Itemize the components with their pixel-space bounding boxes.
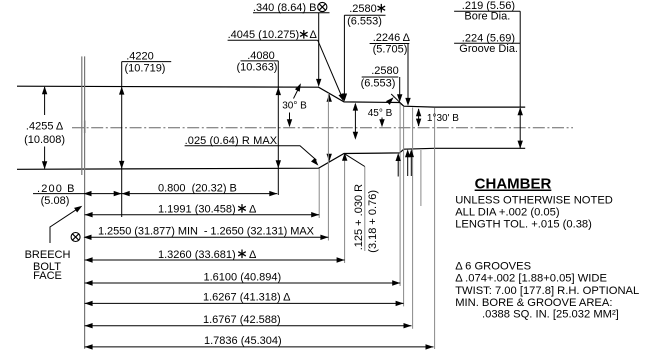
svg-text:(10.363): (10.363) (237, 62, 278, 74)
svg-text:(6.553): (6.553) (361, 78, 396, 90)
svg-text:TWIST: 7.00 [177.8] R.H. OPTIO: TWIST: 7.00 [177.8] R.H. OPTIONAL (455, 285, 639, 297)
dim .340 B label with circle-cross (253, 2, 330, 87)
svg-text:.0388 SQ. IN. [25.032 MM²]: .0388 SQ. IN. [25.032 MM²] (482, 309, 619, 321)
svg-text:30° B: 30° B (282, 100, 307, 111)
row3 dim 1.2550 min max with circle-cross (71, 226, 328, 242)
row1 dim .200 B and 0.800 B (33, 183, 277, 207)
shoulder datum arrow up (327, 94, 332, 102)
extension line shoulder start to row2 (318, 169, 320, 219)
svg-text:Δ: Δ (310, 29, 318, 41)
svg-text:UNLESS OTHERWISE NOTED: UNLESS OTHERWISE NOTED (455, 195, 613, 207)
svg-text:Δ: Δ (249, 249, 257, 261)
dim .4220 vertical line with label (119, 62, 171, 217)
dim .2580 second label (361, 65, 403, 102)
svg-text:1.6767 (42.588): 1.6767 (42.588) (203, 314, 281, 326)
svg-text:.2580: .2580 (349, 3, 377, 15)
45 degree chamfer leader arrow (386, 94, 404, 106)
row8 dim 1.7836 (85, 335, 434, 349)
extension line neck start to row4 (344, 154, 346, 263)
row7 dim 1.6767 (85, 314, 412, 329)
extension line shoulder datum to row3 (327, 93, 329, 241)
shoulder datum arrow down (327, 154, 332, 162)
svg-text:.025 (0.64) R MAX: .025 (0.64) R MAX (185, 135, 278, 147)
svg-text:Δ 6 GROOVES: Δ 6 GROOVES (455, 261, 531, 273)
mirror arrow throat bottom (405, 149, 414, 176)
bore dia double arrow (518, 107, 523, 148)
svg-text:FACE: FACE (33, 270, 62, 282)
svg-text:(5.705): (5.705) (373, 44, 408, 56)
rotated radius label (353, 184, 379, 253)
svg-text:LENGTH TOL. +.015 (0.38): LENGTH TOL. +.015 (0.38) (455, 219, 592, 231)
svg-text:(3.18 + 0.76): (3.18 + 0.76) (367, 190, 379, 253)
svg-text:Bore Dia.: Bore Dia. (464, 11, 510, 23)
row6 dim 1.6267 (85, 292, 404, 306)
svg-text:1.6267 (41.318) Δ: 1.6267 (41.318) Δ (203, 292, 291, 304)
svg-text:(6.553): (6.553) (347, 16, 382, 28)
centerline tick at breech face (84, 121, 86, 134)
svg-text:(10.719): (10.719) (125, 63, 166, 75)
svg-text:1°30' B: 1°30' B (427, 113, 459, 124)
svg-text:.2580: .2580 (371, 65, 399, 77)
centerline (72, 127, 573, 129)
dim .2246 label (370, 32, 411, 106)
chamber top contour (17, 86, 525, 107)
svg-text:45° B: 45° B (368, 108, 393, 119)
row4 dim 1.3260 (85, 249, 345, 263)
notes block (455, 176, 639, 321)
svg-text:1.1991 (30.458): 1.1991 (30.458) (158, 203, 236, 215)
dim .4080 vertical line with label (241, 61, 282, 195)
svg-text:.4045 (10.275): .4045 (10.275) (228, 29, 300, 41)
svg-text:(5.08): (5.08) (41, 195, 70, 207)
chamber bottom contour (17, 148, 525, 169)
svg-text:.4220: .4220 (126, 51, 154, 63)
mirror arrow neck mouth bottom (396, 153, 401, 177)
extension line case mouth to row5 (399, 104, 401, 287)
svg-text:.125 + .030 R: .125 + .030 R (353, 184, 365, 250)
mirror arrow at neck bottom with leader (342, 153, 365, 251)
bore groove dia labels (454, 0, 520, 107)
breech bolt face label and leader (25, 206, 83, 282)
svg-text:.4080: .4080 (247, 50, 275, 62)
svg-text:MIN. BORE & GROOVE AREA:: MIN. BORE & GROOVE AREA: (455, 297, 612, 309)
svg-text:BREECH: BREECH (25, 249, 71, 261)
svg-text:.4255 Δ: .4255 Δ (26, 121, 64, 133)
dim .4045 label with diagonal leader (228, 29, 344, 102)
dim .4255 vertical line (42, 86, 47, 169)
extension line throat end to row7 (412, 108, 414, 329)
neck dia double arrow (353, 103, 358, 140)
dim .2580 star label (342, 3, 386, 102)
extension line short at leade (420, 150, 422, 206)
svg-text:1.7836 (45.304): 1.7836 (45.304) (204, 335, 282, 347)
row2 dim 1.1991 (85, 203, 320, 217)
svg-text:1.6100 (40.894): 1.6100 (40.894) (204, 272, 282, 284)
svg-text:.2246 Δ: .2246 Δ (373, 32, 411, 44)
1 deg 30 label and double arrow (416, 108, 459, 126)
svg-text:Δ: Δ (249, 203, 257, 215)
45 deg label and mini arrow (368, 108, 393, 128)
extension line leade end to row8 (434, 108, 436, 349)
row5 dim 1.6100 (85, 272, 401, 286)
svg-text:CHAMBER: CHAMBER (475, 176, 552, 193)
svg-text:ALL DIA +.002 (0.05): ALL DIA +.002 (0.05) (455, 207, 560, 219)
svg-text:Δ .074+.002 [1.88+0.05] WIDE: Δ .074+.002 [1.88+0.05] WIDE (455, 273, 607, 285)
extension line chamfer end to row6 (403, 107, 405, 306)
svg-text:1.2550 (31.877) MIN - 1.2650: 1.2550 (31.877) MIN - 1.2650 (32.131) MA… (98, 226, 315, 238)
breech bolt face double line (81, 56, 83, 175)
radius .025 R MAX label and leader (185, 135, 319, 166)
svg-text:(10.808): (10.808) (24, 134, 65, 146)
svg-text:.340 (8.64) B: .340 (8.64) B (253, 2, 317, 14)
svg-text:1.3260 (33.681): 1.3260 (33.681) (158, 249, 236, 261)
svg-text:Groove Dia.: Groove Dia. (459, 43, 518, 55)
30 deg label and leader (282, 83, 307, 127)
svg-text:0.800 (20.32) B: 0.800 (20.32) B (158, 183, 237, 195)
